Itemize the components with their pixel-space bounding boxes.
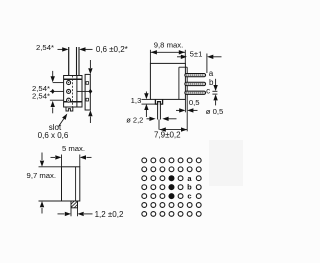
- pin hatch 2: [71, 201, 74, 204]
- dim 2,54 top tail: [58, 48, 64, 50]
- dim 0,5 right tail: [193, 109, 198, 111]
- arrowheads: [40, 47, 218, 216]
- arrow 7,9 right-pointing: [181, 127, 187, 131]
- body V3: [62, 167, 80, 201]
- svg-text:c: c: [187, 192, 191, 201]
- svg-text:0,5: 0,5: [189, 98, 200, 107]
- inner line V3: [75, 167, 77, 201]
- dim 7,9 line: [160, 129, 188, 131]
- arrow 5±1 right: [207, 55, 213, 59]
- pin circle 2 V1: [67, 89, 71, 93]
- V1 right diamond: [89, 89, 93, 94]
- svg-text:9,7 max.: 9,7 max.: [27, 171, 56, 180]
- svg-text:2,54*: 2,54*: [36, 43, 54, 52]
- arrow 1,3 up: [144, 104, 148, 110]
- ext 9,7 bottom: [39, 200, 62, 202]
- ext 9,8 right: [184, 50, 186, 63]
- dim ø2,2 right tail: [168, 118, 177, 120]
- wire lead 1/3: [68, 47, 70, 76]
- left dim arrow down: [51, 76, 55, 82]
- left ext row2: [50, 90, 64, 92]
- pin c V2: [185, 91, 206, 94]
- pin circle 3 V1: [67, 98, 71, 102]
- svg-text:ø 0,5: ø 0,5: [206, 107, 224, 116]
- arrow ø2,2 right-pointing: [149, 117, 155, 121]
- seam line V1: [72, 76, 74, 108]
- dim 1,3 vline bottom: [145, 110, 147, 117]
- ext 0,5 body right: [184, 100, 186, 113]
- dim 9,8 line: [150, 51, 185, 53]
- svg-text:1,3: 1,3: [131, 96, 142, 105]
- arrow 1,3 down: [144, 93, 148, 99]
- arrow 0,5 left-pointing: [187, 108, 193, 112]
- dim 9,7 vline top: [41, 153, 43, 161]
- svg-text:0,6 ±0,2*: 0,6 ±0,2*: [96, 45, 128, 54]
- svg-text:a: a: [209, 69, 214, 78]
- left ext row3: [50, 99, 64, 101]
- V1 right arrow up: [88, 110, 92, 116]
- pin circle 1 V1: [67, 81, 71, 85]
- slot leader arrowhead: [62, 114, 67, 120]
- arrow ø2,2 left-pointing: [162, 117, 168, 121]
- body V2: [150, 63, 185, 99]
- pin hatch 1: [71, 201, 77, 207]
- pin a V2: [185, 74, 206, 77]
- svg-text:1,2 ±0,2: 1,2 ±0,2: [95, 210, 124, 219]
- pin block top line: [64, 78, 82, 80]
- arrow 0,6 top left-pointing: [79, 47, 85, 51]
- dim ø0,5 vline top: [215, 79, 217, 85]
- arrow 9,7 up: [40, 201, 44, 207]
- V1 right arrow down: [88, 68, 92, 74]
- dim 1,2 right tail: [84, 213, 93, 215]
- wire lead 2 right edge: [78, 47, 80, 76]
- pin V3: [71, 201, 78, 208]
- svg-text:c: c: [206, 87, 210, 96]
- screw slot ext right: [159, 104, 161, 119]
- hole filled row5: [168, 193, 174, 199]
- pin b V2: [185, 82, 206, 85]
- pin c edge ext top: [212, 90, 217, 92]
- arrow 0,5 right-pointing: [179, 108, 185, 112]
- ext 9,7 top: [39, 166, 62, 168]
- dim 5±1 right tail: [213, 56, 222, 58]
- svg-text:9,8 max.: 9,8 max.: [154, 40, 183, 49]
- pin hatch 3: [74, 205, 77, 208]
- arrow 1,2 left-pointing: [78, 212, 84, 216]
- slot leader line: [59, 119, 64, 127]
- ext 5±1 right: [206, 54, 208, 74]
- svg-text:0,6 x 0,6: 0,6 x 0,6: [38, 131, 69, 140]
- left dim arrow up: [51, 101, 55, 107]
- screw axis ext: [158, 120, 160, 130]
- arrow 9,8 right: [179, 50, 185, 54]
- ext body-bottom left: [142, 98, 151, 100]
- dim 0,5 left tail: [176, 109, 180, 111]
- screw box V2: [155, 99, 162, 104]
- dim 1,3 vline top: [145, 92, 147, 95]
- dim 0,6 top tail: [85, 48, 93, 50]
- spacer rect V1: [85, 74, 90, 110]
- pin block bottom line: [64, 101, 82, 103]
- arrow ø0,5 down: [213, 85, 217, 91]
- arrow 9,7 down: [40, 161, 44, 167]
- dim 1,2 left tail: [58, 213, 65, 215]
- left dim vline top: [52, 71, 54, 78]
- pin row 2 extension: [77, 90, 90, 92]
- wire lead 2 left edge: [76, 47, 78, 76]
- svg-text:b: b: [187, 183, 192, 192]
- left ext row1: [53, 82, 64, 84]
- dim ø0,5 vline bottom: [215, 101, 217, 106]
- pin c edge ext bottom: [212, 93, 217, 95]
- dim 9,7 vline bottom: [41, 208, 43, 214]
- inner face line V1: [76, 76, 78, 108]
- arrow 1,2 right-pointing: [65, 212, 71, 216]
- svg-text:2,54*: 2,54*: [32, 92, 50, 101]
- body V1: [64, 76, 82, 108]
- right dim tail top: [89, 60, 91, 68]
- pin ext left: [70, 208, 72, 216]
- screw slot ext left: [157, 104, 159, 119]
- hole filled row3: [168, 175, 174, 181]
- seam V2: [178, 67, 180, 99]
- svg-text:ø 2,2: ø 2,2: [126, 116, 143, 125]
- svg-text:5 max.: 5 max.: [62, 144, 85, 153]
- ext screw-bottom left: [142, 103, 156, 105]
- arrow 5max right-pointing: [55, 155, 61, 159]
- arrow 7,9 left-pointing: [160, 127, 166, 131]
- dim 5max left tail: [51, 156, 56, 158]
- arrow 5±1 left: [181, 55, 187, 59]
- ext 5max right: [79, 155, 81, 167]
- arrow 2,54 top right-pointing: [62, 47, 68, 51]
- hole filled row4: [168, 184, 174, 190]
- step line V2: [179, 66, 187, 68]
- left dim vline bottom: [52, 108, 54, 114]
- dim 5±1 left tail: [177, 56, 181, 58]
- arrow ø0,5 up: [213, 94, 217, 100]
- tick pin3: [86, 98, 89, 101]
- watermark patch: [209, 140, 243, 186]
- svg-text:5±1: 5±1: [190, 49, 203, 58]
- slot tab V1: [66, 107, 73, 111]
- dim 5max right tail: [87, 156, 92, 158]
- arrow 5max left-pointing: [80, 155, 86, 159]
- arrow 9,8 left: [151, 50, 157, 54]
- pin ext right: [77, 208, 79, 216]
- right dim tail bottom: [89, 117, 91, 124]
- left dim diamond: [51, 89, 55, 94]
- ext 5max left: [61, 155, 63, 167]
- svg-text:7,9±0,2: 7,9±0,2: [154, 131, 181, 140]
- ext 9,8 left: [149, 50, 151, 63]
- tick pin1: [86, 82, 89, 85]
- flange ext line V2: [186, 67, 188, 131]
- dim ø2,2 left tail: [147, 118, 151, 120]
